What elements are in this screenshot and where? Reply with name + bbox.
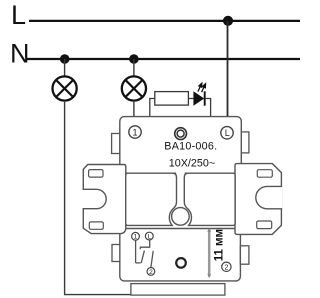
svg-text:11 мм: 11 мм (214, 229, 226, 261)
svg-text:2: 2 (224, 264, 228, 271)
svg-text:N: N (10, 39, 30, 69)
svg-text:L: L (148, 234, 152, 241)
svg-text:1: 1 (132, 127, 137, 137)
svg-text:1: 1 (134, 234, 138, 241)
svg-text:2: 2 (149, 269, 153, 276)
svg-text:10X/250~: 10X/250~ (169, 157, 215, 169)
svg-text:L: L (11, 0, 26, 30)
svg-text:L: L (225, 128, 230, 138)
svg-text:BA10-006.: BA10-006. (164, 141, 217, 153)
